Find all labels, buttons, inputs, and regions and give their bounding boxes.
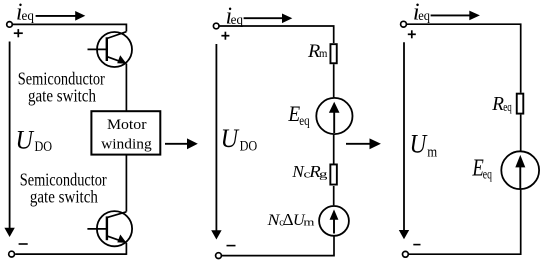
- motor winding box: [91, 111, 160, 154]
- terminal bottom-left circuit1: [9, 251, 15, 257]
- svg-text:gate switch: gate switch: [30, 186, 99, 207]
- label i_eq circuit3: [413, 0, 430, 26]
- label i_eq circuit1: [16, 0, 34, 26]
- label E_eq circuit3: [472, 154, 492, 182]
- source N_c delta-U_m: [319, 206, 349, 236]
- svg-text:eq: eq: [299, 113, 310, 129]
- source E_eq circuit3: [501, 151, 539, 189]
- label Semiconductor gate switch (lower): [20, 169, 108, 207]
- plus sign circuit3: [408, 30, 416, 38]
- wire R_m to E_eq source: [333, 64, 335, 97]
- label U_m circuit3: [410, 130, 438, 160]
- svg-text:R: R: [491, 93, 504, 114]
- svg-text:gate switch: gate switch: [28, 85, 97, 106]
- current arrow i_eq circuit1: [36, 11, 86, 21]
- svg-text:DO: DO: [240, 137, 258, 153]
- current arrow i_eq circuit2: [244, 14, 293, 24]
- wire Q1 emitter to motor box: [125, 64, 127, 112]
- terminal bottom-left circuit2: [216, 253, 222, 259]
- transistor Q2 (lower semiconductor gate switch): [87, 211, 132, 246]
- wire bottom circuit1: [15, 253, 126, 255]
- transformation arrow circuit1 to circuit2: [165, 138, 198, 149]
- wire R_eq to E_eq source circuit3: [520, 115, 522, 151]
- svg-text:eq: eq: [418, 7, 430, 23]
- current arrow i_eq circuit3: [431, 11, 480, 21]
- svg-text:U: U: [410, 130, 429, 159]
- wire E_eq to N_cR_g: [333, 135, 335, 164]
- svg-text:winding: winding: [101, 136, 152, 153]
- label Semiconductor gate switch (upper): [18, 68, 106, 106]
- label N_cR_g: [291, 162, 327, 181]
- svg-text:m: m: [319, 48, 328, 61]
- wire top circuit1: [13, 24, 127, 31]
- svg-text:eq: eq: [503, 100, 512, 114]
- label N_c delta-U_m: [266, 210, 314, 229]
- voltage arrow U_DO circuit2: [211, 44, 221, 240]
- label i_eq circuit2: [226, 3, 244, 30]
- svg-text:m: m: [303, 216, 315, 227]
- label R_m: [307, 41, 328, 61]
- svg-text:DO: DO: [34, 138, 52, 154]
- label R_eq: [491, 93, 512, 114]
- voltage arrow U_DO circuit1: [4, 42, 14, 238]
- wire top circuit3: [407, 24, 521, 93]
- terminal bottom-left circuit3: [403, 251, 409, 257]
- plus sign circuit2: [221, 32, 229, 40]
- svg-text:eq: eq: [231, 12, 244, 28]
- svg-text:U: U: [221, 125, 240, 153]
- source E_eq circuit2: [316, 98, 352, 134]
- svg-text:g: g: [319, 168, 327, 180]
- minus sign circuit2: [227, 245, 236, 247]
- svg-text:Motor: Motor: [107, 116, 147, 133]
- svg-text:E: E: [472, 154, 484, 181]
- label U_DO circuit1: [16, 127, 53, 155]
- terminal top-left circuit2: [213, 23, 219, 29]
- resistor R_eq: [517, 94, 524, 114]
- label E_eq circuit2: [287, 103, 310, 128]
- minus sign circuit3: [413, 244, 420, 246]
- wire top circuit2: [219, 26, 333, 43]
- svg-text:N: N: [266, 211, 280, 229]
- wire bottom circuit2: [222, 237, 334, 256]
- svg-text:m: m: [427, 144, 437, 160]
- plus sign circuit1: [14, 29, 23, 37]
- wire motor box to Q2 collector: [125, 155, 127, 212]
- wire bottom circuit3: [409, 190, 521, 254]
- terminal top-left circuit1: [7, 22, 13, 28]
- svg-text:eq: eq: [483, 166, 492, 182]
- label U_DO circuit2: [221, 125, 258, 153]
- resistor R_m: [330, 44, 336, 63]
- svg-text:U: U: [16, 127, 35, 155]
- terminal top-left circuit3: [401, 21, 407, 27]
- minus sign circuit1: [19, 243, 28, 245]
- svg-text:eq: eq: [22, 8, 35, 23]
- wire N_cR_g to N_c delta-U_m source: [333, 186, 335, 205]
- transistor Q1 (upper semiconductor gate switch): [88, 32, 133, 67]
- resistor N_cR_g: [330, 164, 337, 184]
- wire Q2 emitter to bottom: [125, 243, 127, 255]
- transformation arrow circuit2 to circuit3: [346, 138, 381, 149]
- voltage arrow U_m circuit3: [399, 42, 409, 239]
